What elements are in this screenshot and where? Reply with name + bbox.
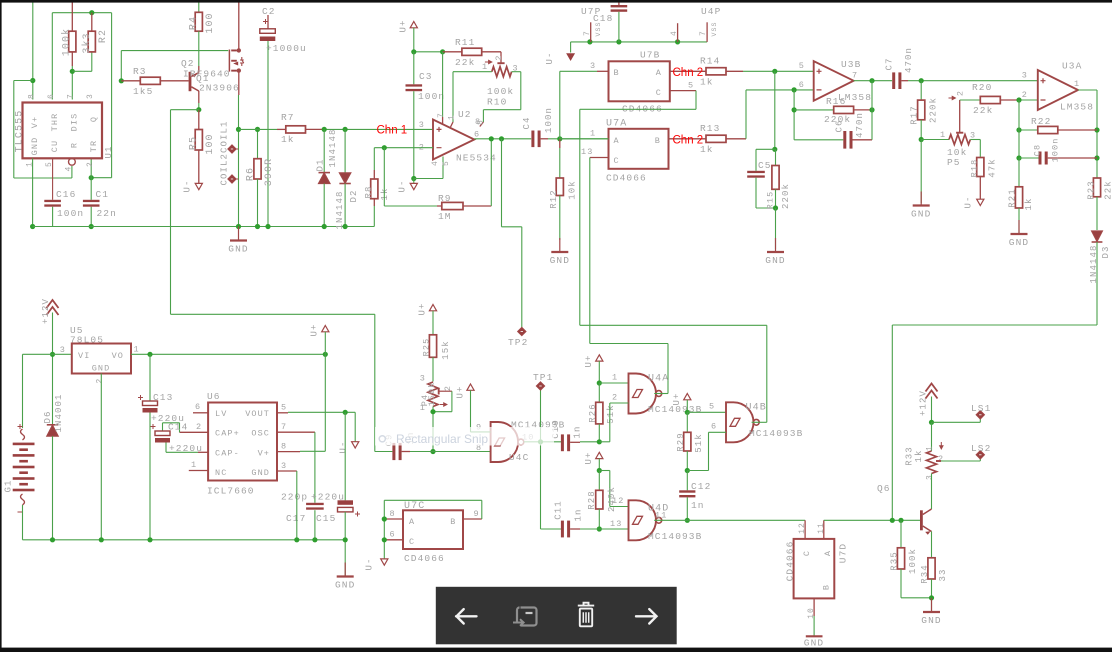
switch U7D pin 11 wire to Q6 xyxy=(823,520,825,539)
wire xyxy=(746,89,814,91)
svg-text:GND: GND xyxy=(335,580,355,591)
junction xyxy=(499,136,504,141)
wire xyxy=(120,51,122,81)
svg-text:+12V: +12V xyxy=(41,298,51,324)
svg-text:2: 2 xyxy=(96,378,105,384)
junction xyxy=(792,87,797,92)
resistor R13 1k xyxy=(706,135,726,142)
svg-text:U7P: U7P xyxy=(581,6,601,17)
wire xyxy=(979,459,981,462)
svg-text:6: 6 xyxy=(799,80,805,90)
svg-text:R10: R10 xyxy=(487,97,507,108)
wire xyxy=(686,497,688,520)
wire xyxy=(598,459,600,471)
svg-text:1n: 1n xyxy=(573,425,583,438)
junction xyxy=(147,537,152,542)
svg-text:220k: 220k xyxy=(929,97,939,123)
resistor R34 33 xyxy=(928,558,935,579)
svg-text:Chn 2: Chn 2 xyxy=(673,67,704,79)
wire xyxy=(892,324,1097,326)
U6 VOUT wire to U- net xyxy=(277,412,288,414)
wire R9 to output xyxy=(490,139,492,206)
nand gate U4B MC14093B xyxy=(726,402,754,442)
junction xyxy=(411,49,416,54)
svg-text:C1: C1 xyxy=(96,189,110,200)
wire xyxy=(470,390,472,432)
svg-text:U4A: U4A xyxy=(648,374,669,385)
wire xyxy=(149,413,151,540)
wire U7A pin 13 control xyxy=(590,157,609,159)
junction xyxy=(929,595,934,600)
wire xyxy=(413,52,415,85)
svg-text:2: 2 xyxy=(1022,90,1028,100)
wire xyxy=(520,72,522,110)
connector COIL pin 1 xyxy=(228,145,236,153)
capacitor C1 22n xyxy=(83,200,100,202)
svg-text:OSC: OSC xyxy=(251,429,270,439)
wire xyxy=(1078,89,1097,91)
wire xyxy=(512,71,521,73)
svg-text:R17: R17 xyxy=(910,105,920,125)
svg-text:10k: 10k xyxy=(568,180,578,200)
wire xyxy=(1019,129,1038,131)
capacitor C4 100n xyxy=(531,131,534,148)
svg-text:U-: U- xyxy=(545,51,555,64)
wire battery minus to rail xyxy=(22,505,24,540)
potentiometer P4 150k xyxy=(428,382,438,407)
wire xyxy=(149,354,151,401)
svg-text:13: 13 xyxy=(610,519,622,529)
svg-text:LM358: LM358 xyxy=(1060,102,1094,113)
svg-text:U+: U+ xyxy=(584,354,594,367)
resistor R23 22k xyxy=(1093,178,1100,197)
svg-text:THR: THR xyxy=(50,113,60,132)
svg-text:1M: 1M xyxy=(438,211,452,222)
wire xyxy=(599,528,628,530)
wire xyxy=(813,616,815,636)
svg-text:R22: R22 xyxy=(1031,116,1051,127)
svg-text:LV: LV xyxy=(215,409,227,419)
resistor R20 22k xyxy=(980,96,1000,103)
U+ arrow to U4A pin1 xyxy=(596,355,603,361)
svg-text:2: 2 xyxy=(196,422,202,432)
wire xyxy=(745,90,747,139)
wire U4B pin5 xyxy=(687,411,726,413)
junction xyxy=(147,352,152,357)
svg-text:1: 1 xyxy=(612,373,618,383)
svg-text:1: 1 xyxy=(26,161,35,167)
wire xyxy=(432,311,434,335)
wire xyxy=(375,451,393,453)
wire xyxy=(323,184,325,227)
svg-text:U+: U+ xyxy=(672,392,682,405)
capacitor C14 220u xyxy=(155,431,170,436)
svg-text:U7C: U7C xyxy=(404,501,425,512)
svg-text:C8: C8 xyxy=(1033,144,1043,156)
wire U7A pin B out xyxy=(669,138,707,140)
svg-text:3k3: 3k3 xyxy=(81,32,93,53)
svg-text:8: 8 xyxy=(477,119,486,125)
svg-text:R28: R28 xyxy=(587,490,597,510)
wire xyxy=(111,13,113,178)
wire xyxy=(559,196,561,241)
svg-text:U3A: U3A xyxy=(1062,61,1082,72)
wire xyxy=(900,569,902,598)
junction xyxy=(929,420,934,425)
wire xyxy=(756,148,775,150)
wire xyxy=(481,500,483,519)
svg-text:3: 3 xyxy=(590,61,596,71)
U+ arrow to U5 output xyxy=(322,326,329,332)
svg-text:U+: U+ xyxy=(456,385,466,398)
wire U4C pin9 xyxy=(471,431,491,433)
wire xyxy=(756,207,776,209)
svg-text:MC14093B: MC14093B xyxy=(749,428,803,439)
svg-text:U-: U- xyxy=(964,195,974,208)
svg-text:3: 3 xyxy=(420,374,426,384)
wire xyxy=(686,451,688,471)
resistor R14 1k xyxy=(706,68,726,75)
svg-text:C15: C15 xyxy=(316,513,336,524)
svg-text:R6: R6 xyxy=(246,167,257,181)
wire P4 to C9 node xyxy=(432,407,434,452)
wire xyxy=(451,391,453,412)
toolbar snip icon xyxy=(517,608,537,626)
dark toolbar xyxy=(436,587,677,645)
svg-text:LS1: LS1 xyxy=(971,403,991,414)
transistor Q6 xyxy=(920,510,923,530)
svg-text:GND: GND xyxy=(921,615,941,626)
wire xyxy=(171,313,375,315)
wire xyxy=(14,80,33,82)
capacitor C15 220u xyxy=(338,500,354,505)
svg-text:1k: 1k xyxy=(914,449,924,462)
svg-text:6: 6 xyxy=(474,130,480,140)
connector COIL pin 2 xyxy=(228,175,236,183)
U6 pin 6 LV stub xyxy=(193,412,208,414)
wire xyxy=(170,110,172,315)
junction xyxy=(30,78,35,83)
junction xyxy=(265,224,270,229)
wire C18 to rail xyxy=(618,12,620,42)
svg-text:R: R xyxy=(70,142,80,148)
svg-text:C2: C2 xyxy=(262,6,276,17)
wire xyxy=(560,70,597,72)
wire xyxy=(314,510,316,540)
svg-text:R35: R35 xyxy=(890,551,900,571)
wire xyxy=(598,471,600,491)
wire xyxy=(920,120,922,140)
svg-text:100k: 100k xyxy=(61,28,73,56)
wire xyxy=(687,470,708,472)
svg-text:1k: 1k xyxy=(700,144,714,155)
wire xyxy=(901,597,932,599)
switch U7D pin 12 stub xyxy=(804,520,806,539)
wire to R pin bubble xyxy=(71,166,73,178)
wire C9 to U4C pin8 xyxy=(410,451,491,453)
svg-text:CD4066: CD4066 xyxy=(785,541,796,582)
wire C1 to ground rail xyxy=(90,207,92,227)
svg-text:C: C xyxy=(614,156,620,166)
+12V supply symbol xyxy=(47,300,59,315)
svg-text:7: 7 xyxy=(852,71,858,81)
U+ arrow to U4D pin12 xyxy=(596,452,603,458)
wire xyxy=(598,424,600,442)
svg-text:R3: R3 xyxy=(133,66,147,77)
wire Q2 drain down xyxy=(238,95,240,227)
svg-text:11: 11 xyxy=(817,522,826,534)
svg-text:U+: U+ xyxy=(584,451,594,464)
junction xyxy=(440,49,445,54)
svg-text:220k: 220k xyxy=(781,183,791,209)
wire xyxy=(1096,197,1098,230)
svg-text:100n: 100n xyxy=(418,91,445,102)
wire xyxy=(257,179,259,227)
wire xyxy=(931,474,933,510)
wire xyxy=(257,129,259,158)
junction xyxy=(538,439,543,444)
svg-text:11: 11 xyxy=(655,511,667,521)
wire xyxy=(931,532,933,558)
svg-text:1n: 1n xyxy=(691,500,705,511)
wire xyxy=(384,205,437,207)
svg-text:9: 9 xyxy=(474,509,480,519)
svg-text:100n: 100n xyxy=(1051,138,1061,163)
wire xyxy=(414,51,443,53)
toolbar trash icon xyxy=(578,603,594,606)
connector LS2 xyxy=(936,460,941,462)
svg-text:R4: R4 xyxy=(189,16,200,30)
svg-text:R29: R29 xyxy=(676,432,686,452)
resistor 100k xyxy=(71,2,73,31)
svg-text:1k: 1k xyxy=(1024,197,1034,210)
wire xyxy=(344,412,346,500)
wire xyxy=(373,206,375,227)
svg-text:R33: R33 xyxy=(905,446,915,466)
wire xyxy=(931,598,933,612)
wire xyxy=(960,99,981,101)
wire top rail xyxy=(52,12,111,14)
analog switch U7A CD4066 xyxy=(609,129,669,169)
wire xyxy=(314,432,316,503)
svg-text:NC: NC xyxy=(215,468,227,478)
wire U4D pin12 xyxy=(610,506,629,508)
svg-text:1n: 1n xyxy=(574,508,584,521)
svg-text:A: A xyxy=(656,68,662,78)
wire xyxy=(14,177,72,179)
capacitor C2 1000u xyxy=(267,15,269,30)
power pin U7P VSS xyxy=(590,22,592,42)
junction xyxy=(312,537,317,542)
wire xyxy=(686,412,688,432)
U6 OSC pin to C17 xyxy=(277,431,315,433)
junction xyxy=(89,175,94,180)
wire xyxy=(433,411,452,413)
wire U7C pin 6 xyxy=(384,539,403,541)
svg-text:R11: R11 xyxy=(455,37,475,48)
junction xyxy=(322,127,327,132)
resistor R25 15k xyxy=(429,335,436,358)
svg-text:C: C xyxy=(409,537,415,547)
wire xyxy=(501,139,503,227)
U+ arrow to U4B pin5 xyxy=(684,394,691,400)
wire xyxy=(1096,90,1098,178)
svg-text:100n: 100n xyxy=(544,107,554,133)
svg-text:47k: 47k xyxy=(988,158,998,178)
wire xyxy=(91,52,93,71)
svg-text:TP2: TP2 xyxy=(508,337,528,348)
wire feedback to output xyxy=(871,81,873,140)
junction xyxy=(616,39,621,44)
svg-text:C17: C17 xyxy=(286,513,306,524)
svg-text:Chn 2: Chn 2 xyxy=(673,135,704,147)
svg-text:VOUT: VOUT xyxy=(245,409,270,419)
junction xyxy=(382,516,387,521)
svg-text:TR: TR xyxy=(89,140,99,152)
junction xyxy=(70,69,75,74)
junction xyxy=(89,224,94,229)
junction xyxy=(890,518,895,523)
svg-text:150k: 150k xyxy=(427,382,437,407)
wire xyxy=(1018,158,1020,187)
wire xyxy=(900,520,902,548)
wire xyxy=(23,353,72,355)
wire xyxy=(324,332,326,355)
svg-text:R14: R14 xyxy=(700,56,720,67)
capacitor C10 1n xyxy=(561,434,564,451)
wire xyxy=(941,460,980,462)
svg-text:5: 5 xyxy=(442,160,451,166)
svg-text:TP1: TP1 xyxy=(533,372,553,383)
junction xyxy=(772,147,777,152)
svg-text:4: 4 xyxy=(65,166,74,172)
wire xyxy=(344,184,346,227)
svg-text:VSS: VSS xyxy=(711,21,718,36)
wire xyxy=(165,443,167,453)
junction xyxy=(382,145,387,150)
ground arrow filled xyxy=(567,54,574,60)
wire xyxy=(23,539,346,541)
wire xyxy=(198,2,200,12)
wire xyxy=(580,441,599,443)
svg-text:C: C xyxy=(802,550,812,556)
svg-text:B: B xyxy=(822,584,832,590)
svg-text:3: 3 xyxy=(86,93,95,99)
svg-text:CD4066: CD4066 xyxy=(606,173,647,184)
U6 pin 1 NC stub xyxy=(189,470,208,472)
top black bar xyxy=(0,0,1112,3)
U+ arrow above R25 xyxy=(429,305,436,311)
svg-text:1N4148: 1N4148 xyxy=(335,190,345,229)
junction xyxy=(1094,155,1099,160)
U6 V+ pin 8 wire xyxy=(277,451,300,453)
analog switch U7C CD4066 xyxy=(403,510,463,549)
wire xyxy=(609,403,611,442)
wire xyxy=(709,431,727,433)
svg-text:7: 7 xyxy=(699,30,708,36)
IC U1 TLC555 xyxy=(23,103,103,159)
wire xyxy=(598,383,600,402)
U6 GND pin 3 xyxy=(277,470,297,472)
svg-text:GND: GND xyxy=(804,638,824,649)
wire xyxy=(793,90,795,140)
resistor R5 100 xyxy=(198,110,200,130)
svg-text:8: 8 xyxy=(28,93,37,99)
svg-text:U-: U- xyxy=(183,179,193,192)
svg-text:33: 33 xyxy=(938,568,948,581)
wire xyxy=(442,52,444,117)
wire xyxy=(344,512,346,577)
svg-text:5: 5 xyxy=(281,403,287,413)
wire xyxy=(766,325,768,422)
svg-text:1: 1 xyxy=(482,62,488,72)
svg-text:C: C xyxy=(656,88,662,98)
svg-text:GND: GND xyxy=(251,468,270,478)
svg-text:B: B xyxy=(614,68,620,78)
U+ arrow to U4C pin9 xyxy=(467,384,474,390)
wire U7C pin 9 loop xyxy=(463,518,482,520)
svg-text:R16: R16 xyxy=(826,96,846,107)
svg-text:R13: R13 xyxy=(700,123,720,134)
svg-text:2N3906: 2N3906 xyxy=(199,83,240,94)
capacitor C17 220p xyxy=(306,503,324,505)
wire xyxy=(755,178,757,208)
V- supply arrow xyxy=(195,183,202,189)
ground at R15 xyxy=(775,238,777,252)
svg-text:C11: C11 xyxy=(554,500,564,520)
power pin U4P VSS xyxy=(706,22,708,42)
svg-text:1N4148: 1N4148 xyxy=(328,128,338,167)
U7D pin 10 to GND xyxy=(813,598,815,616)
resistor R12 10k xyxy=(559,139,561,148)
wire xyxy=(384,499,482,501)
wire xyxy=(373,148,375,170)
wire xyxy=(695,91,697,110)
svg-text:VSS: VSS xyxy=(595,21,602,36)
svg-text:22k: 22k xyxy=(1104,180,1112,200)
svg-text:Rectangular Snip: Rectangular Snip xyxy=(396,432,488,446)
junction xyxy=(919,78,924,83)
wire xyxy=(540,442,542,529)
wire xyxy=(920,140,922,204)
wire xyxy=(891,325,893,520)
svg-text:GND: GND xyxy=(765,255,785,266)
svg-text:CAP-: CAP- xyxy=(215,449,240,459)
ground xyxy=(238,227,240,241)
junction xyxy=(89,10,94,15)
capacitor C7 470n xyxy=(892,72,895,89)
svg-text:U1: U1 xyxy=(104,145,114,158)
svg-text:100k: 100k xyxy=(487,86,514,97)
nand gate U4C MC14093B xyxy=(491,422,519,462)
wire xyxy=(239,128,278,130)
wire xyxy=(288,411,355,413)
svg-text:GND: GND xyxy=(1009,237,1029,248)
left black edge xyxy=(0,0,2,652)
svg-text:1k: 1k xyxy=(380,187,390,200)
V- supply arrow xyxy=(410,183,417,189)
wire ground rail xyxy=(33,226,375,228)
wire xyxy=(794,109,834,111)
wire xyxy=(571,41,708,43)
wire U+ stem xyxy=(413,28,415,52)
svg-text:U4P: U4P xyxy=(701,6,721,17)
V- arrow VOUT xyxy=(352,442,359,448)
nand gate U4A MC14093B xyxy=(629,374,657,414)
wire xyxy=(22,354,24,428)
wire xyxy=(541,528,561,530)
wire xyxy=(442,157,444,179)
